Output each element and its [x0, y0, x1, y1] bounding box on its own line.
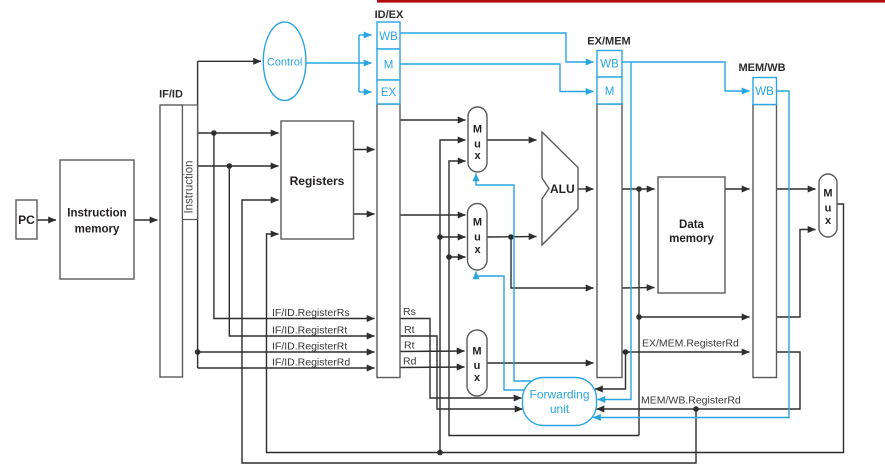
svg-text:M: M: [472, 346, 481, 358]
svg-text:u: u: [474, 232, 481, 244]
svg-text:M: M: [605, 86, 615, 98]
wire Control to ID/EX M: [307, 62, 372, 64]
ID/EX WB field: [377, 22, 400, 49]
EX/MEM WB field: [597, 51, 622, 78]
svg-text:EX: EX: [381, 87, 397, 99]
svg-text:Rt: Rt: [404, 324, 415, 336]
svg-text:EX/MEM: EX/MEM: [587, 36, 630, 48]
wire instruction to Registers read register 1: [198, 132, 279, 134]
ID/EX EX field: [377, 80, 400, 104]
pipeline register ID/EX: [377, 104, 400, 378]
wire EX/MEM WB to MEM/WB WB: [622, 62, 750, 91]
svg-text:Rs: Rs: [403, 306, 416, 318]
wire instruction bus trunk: [197, 61, 199, 219]
wire Rt field to Mux destination: [400, 350, 465, 353]
block Registers: [281, 121, 354, 239]
pipeline register IF/ID: [160, 105, 183, 377]
node junction wb value: [437, 234, 443, 240]
svg-text:IF/ID.RegisterRt: IF/ID.RegisterRt: [272, 341, 347, 353]
node junction memwb rd: [693, 406, 699, 412]
register PC: [16, 200, 37, 239]
svg-text:Instruction: Instruction: [184, 160, 196, 213]
svg-text:M: M: [823, 188, 832, 200]
svg-text:u: u: [474, 139, 481, 151]
node junction mux b out: [508, 234, 514, 240]
wire Mux B output to ALU: [487, 236, 537, 239]
svg-text:M: M: [473, 217, 482, 229]
mux Mux A: [468, 107, 487, 172]
wire Mux B output to EX/MEM write data: [511, 237, 594, 288]
pipeline register EX/MEM: [597, 104, 622, 378]
wire Mux destination output to EX/MEM: [487, 362, 594, 364]
wire IF/ID.RegisterRt second to ID/EX: [198, 351, 375, 353]
wire IF/ID.RegisterRs to ID/EX: [214, 133, 375, 319]
svg-text:x: x: [474, 244, 481, 256]
wire EX/MEM forward vertical to Mux A bottom input: [449, 161, 639, 436]
wire control branch to EX: [359, 91, 372, 93]
svg-text:Rd: Rd: [403, 356, 417, 368]
wire ALU result down to forward line: [638, 317, 640, 436]
wire PC to Instruction memory: [37, 219, 56, 221]
wire writeback value branch to Mux B middle input: [440, 236, 466, 238]
svg-text:Registers: Registers: [290, 174, 345, 188]
wire ID/EX read data 1 to Mux A: [400, 119, 466, 121]
svg-text:ALU: ALU: [550, 182, 575, 196]
wire EX/MEM.RegisterRd to forwarding unit: [595, 352, 626, 389]
alu ALU: [542, 132, 578, 245]
wire Instruction memory to IF/ID: [134, 219, 158, 221]
svg-text:Rt: Rt: [404, 340, 415, 352]
svg-text:ID/EX: ID/EX: [375, 9, 404, 21]
svg-text:WB: WB: [755, 86, 774, 98]
wire EX/MEM ALU result to Data memory address: [622, 188, 655, 190]
wire ID/EX WB to EX/MEM WB: [400, 33, 594, 62]
wire Rt field to forwarding unit: [400, 336, 523, 409]
wire IF/ID.RegisterRd to ID/EX: [198, 367, 375, 369]
wire EX/MEM write data to Data memory: [622, 287, 655, 290]
mux Mux WB: [819, 174, 837, 237]
svg-text:x: x: [825, 215, 832, 227]
wire EX/MEM forward branch to Mux B bottom input: [449, 256, 466, 258]
mux Mux B: [468, 204, 488, 271]
wire EX/MEM.RegisterRd to MEM/WB: [622, 351, 750, 353]
wire Rd field to Mux destination: [400, 366, 465, 369]
node junction exmem rd: [623, 349, 629, 355]
svg-text:x: x: [474, 372, 481, 384]
svg-text:IF/ID.RegisterRs: IF/ID.RegisterRs: [272, 307, 350, 319]
node junction rs: [211, 130, 217, 136]
svg-text:memory: memory: [669, 233, 714, 245]
block Forwarding unit: [523, 378, 597, 426]
wire EX/MEM WB branch to forwarding unit: [598, 62, 632, 400]
mux Mux destination register: [467, 330, 487, 396]
wire write register number return: [242, 200, 696, 463]
wire writeback value vertical to Mux A middle input: [440, 140, 466, 453]
svg-text:memory: memory: [75, 224, 120, 236]
wire control branch vertical: [358, 35, 360, 92]
wire control branch to WB: [359, 34, 372, 36]
svg-text:WB: WB: [379, 31, 398, 43]
block Data memory: [658, 177, 725, 293]
wire Mux WB output writeback loop: [267, 204, 844, 453]
wire MEM/WB.RegisterRd to forwarding unit: [597, 352, 801, 409]
wire MEM/WB ALU result to Mux WB: [777, 230, 816, 318]
svg-text:M: M: [384, 60, 394, 72]
wire MEM/WB WB to forwarding unit: [593, 91, 789, 418]
svg-text:x: x: [474, 150, 481, 162]
pipeline register MEM/WB: [753, 105, 777, 378]
svg-text:u: u: [474, 360, 481, 372]
node junction rt2: [195, 349, 201, 355]
wire Registers read data 1 to ID/EX: [353, 149, 375, 151]
svg-text:IF/ID.RegisterRt: IF/ID.RegisterRt: [272, 325, 347, 337]
node junction alu result lower: [636, 314, 642, 320]
wire instruction to Control: [198, 60, 261, 62]
wire ALU result to EX/MEM: [578, 188, 594, 190]
wire forwarding unit to Mux A select: [476, 174, 533, 382]
svg-text:unit: unit: [550, 402, 570, 416]
wire Registers read data 2 to ID/EX: [353, 213, 375, 215]
svg-text:IF/ID: IF/ID: [159, 89, 183, 101]
svg-text:Data: Data: [679, 219, 705, 231]
oval Control: [263, 22, 306, 100]
svg-text:EX/MEM.RegisterRd: EX/MEM.RegisterRd: [642, 338, 739, 350]
svg-text:Control: Control: [267, 57, 302, 69]
wire ALU result down to MEM/WB: [639, 189, 750, 317]
EX/MEM M field: [597, 77, 622, 104]
node junction alu result: [636, 186, 642, 192]
svg-text:Forwarding: Forwarding: [529, 388, 589, 402]
svg-text:M: M: [473, 124, 482, 136]
svg-text:MEM/WB.RegisterRd: MEM/WB.RegisterRd: [641, 395, 741, 407]
wire ID/EX M to EX/MEM M: [400, 64, 594, 92]
MEM/WB WB field: [753, 78, 777, 105]
wire MEM/WB read data to Mux WB: [777, 188, 816, 190]
wire Mux A output to ALU: [487, 139, 537, 141]
wire Data memory read data to MEM/WB: [725, 188, 750, 190]
wire Rs field to forwarding unit: [400, 319, 522, 399]
wire forwarding unit to Mux B select: [476, 272, 525, 391]
svg-text:WB: WB: [600, 59, 619, 71]
block Instruction memory: [60, 160, 134, 279]
svg-text:Instruction: Instruction: [67, 208, 126, 220]
instruction field box: [183, 105, 198, 220]
wire ID/EX read data 2 to Mux B: [400, 214, 466, 216]
node junction exmem forward: [446, 254, 452, 260]
svg-text:MEM/WB: MEM/WB: [738, 62, 785, 74]
node junction wb bottom: [437, 450, 443, 456]
wire instruction bus lower trunk: [197, 219, 199, 368]
svg-text:IF/ID.RegisterRd: IF/ID.RegisterRd: [272, 357, 350, 369]
ID/EX M field: [377, 49, 400, 80]
red header bar: [377, 0, 885, 3]
svg-text:u: u: [825, 203, 832, 215]
wire IF/ID.RegisterRt to ID/EX: [229, 166, 374, 336]
svg-text:PC: PC: [18, 213, 35, 227]
node junction rt: [227, 163, 233, 169]
wire instruction to Registers read register 2: [198, 165, 279, 167]
